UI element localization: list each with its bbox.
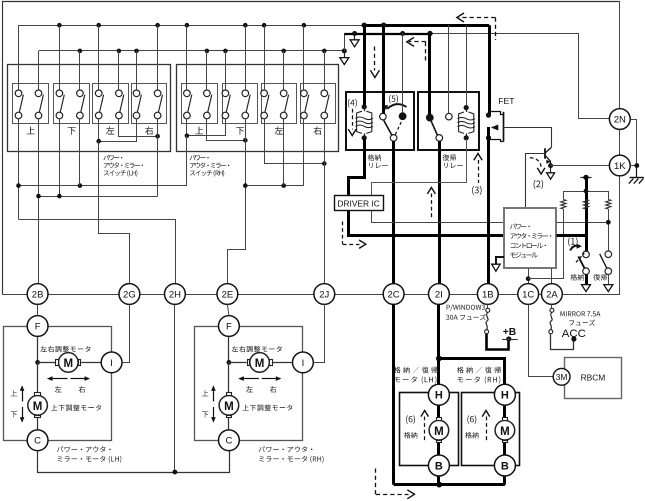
wire thick branch to RH H — [439, 359, 505, 385]
svg-text:1B: 1B — [482, 289, 494, 300]
svg-text:DRIVER IC: DRIVER IC — [337, 198, 379, 208]
connector 2H — [165, 284, 186, 305]
dashed arrow (4) down — [352, 109, 354, 130]
svg-text:I: I — [302, 358, 305, 369]
wire RH left-sw1 jog to right-sw2 column — [265, 119, 325, 164]
wire UD motor to C LH — [37, 418, 39, 430]
wire H3 to connector 2H — [19, 220, 176, 284]
+B terminal — [506, 336, 511, 341]
wire bus2 horizontal — [39, 50, 344, 52]
wire 2A to fuse — [551, 304, 553, 308]
label (4) — [348, 99, 357, 108]
junction dot RH down-sw2 column — [243, 138, 248, 143]
junction dots H1 right — [243, 183, 248, 188]
wire thick return common to connector 2I — [438, 141, 441, 283]
wire thick bus2b to return NC contact — [428, 34, 431, 115]
junction dot bus2b at storage relay NO contact — [400, 31, 405, 36]
wire 1C to 3M — [529, 304, 554, 376]
wire below return switch — [608, 275, 610, 285]
wire LH down-sw2 bottom to H1 — [79, 119, 81, 186]
connector 1B — [477, 284, 498, 305]
wire RH right-sw2 bottom to connector 2J — [324, 119, 326, 284]
wire thin bus1 to return NO contact — [448, 25, 450, 113]
dashed arrow up to return relay — [427, 188, 435, 194]
label storage/return motor RH — [457, 367, 501, 374]
mirror motor box RH — [195, 327, 303, 441]
label UD adjust motor RH — [243, 405, 293, 411]
return relay coil K2 — [464, 105, 469, 110]
wire RH up-sw2 jog to down-sw2 column — [207, 119, 246, 141]
wire thin bus1 to return coil — [466, 25, 468, 105]
ACC terminal — [571, 336, 576, 341]
dashed arrow above storage relay (signal to left) — [409, 41, 426, 43]
connector 1C — [518, 284, 539, 305]
svg-text:M: M — [255, 358, 265, 370]
label storage/return motor LH — [394, 367, 438, 374]
wire thick 2I down — [437, 304, 440, 384]
power outer mirror switch RH outer box — [177, 65, 339, 152]
wire 1B to fuse — [487, 304, 489, 308]
junction dots on bus1 thick — [362, 23, 367, 28]
connector C RH — [219, 430, 240, 451]
wire RH up-sw1 jog to down-sw1 — [186, 119, 188, 136]
terminal crossbar — [580, 177, 591, 179]
connector 2J — [314, 284, 335, 305]
storage relay box — [346, 92, 414, 150]
svg-text:1K: 1K — [614, 161, 626, 172]
FET source dot — [486, 135, 491, 140]
UD adjust motor M2 RH — [219, 396, 239, 416]
connector 2C — [383, 284, 404, 305]
wire H2 — [38, 196, 158, 198]
wire RH right-sw1 bottom to H1 right end — [303, 119, 305, 186]
wire thick B bus — [394, 483, 505, 486]
svg-text:F: F — [226, 321, 232, 332]
RH switch feed wires from buses — [186, 25, 188, 90]
svg-text:M: M — [500, 426, 510, 438]
connector 2I — [429, 284, 450, 305]
module right pin thick to storage switch net — [557, 234, 587, 237]
hollow arrow below emitter — [550, 168, 552, 173]
storage motor M LH — [429, 420, 449, 440]
wire thin DRIVER IC to module — [372, 211, 505, 223]
svg-text:2N: 2N — [614, 114, 626, 125]
connector H LH — [428, 384, 449, 405]
svg-text:I: I — [110, 358, 113, 369]
label P/WINDOW3 fuse — [447, 304, 485, 311]
wire 2E to F RH — [227, 304, 229, 315]
storage relay coil K1 — [362, 104, 367, 109]
transistor Q1 collector lead — [545, 148, 551, 153]
svg-text:H: H — [501, 390, 509, 402]
LH switch feed wires from buses — [18, 25, 20, 90]
label (2) — [534, 180, 544, 189]
LR direction arrows LH — [52, 378, 67, 380]
FET source lead — [489, 140, 503, 142]
mirror motor box LH — [4, 327, 112, 441]
label return relay — [443, 154, 457, 161]
return manual switch — [605, 251, 612, 258]
curved arrow (1) — [570, 246, 579, 251]
FET drain dot — [486, 113, 491, 118]
wire 2B to F LH — [37, 304, 39, 315]
hollow arrow below bus2 end — [344, 53, 346, 57]
wire thick below storage switch — [585, 275, 588, 285]
return relay common contact — [436, 135, 443, 142]
wire H1 left segment — [19, 185, 187, 187]
labels up down RH — [202, 390, 208, 396]
label storage RH — [465, 432, 478, 439]
junction dot bus2 right end — [322, 49, 327, 54]
wire return coil to DRIVER IC — [372, 139, 467, 196]
junction dot thick 2I branch — [436, 356, 442, 362]
wire connector row — [2, 294, 620, 296]
wire bus2 left drop to LH up-switch2 — [38, 51, 40, 90]
label power outer mirror motor LH — [57, 446, 111, 452]
transistor Q1 base lead to module — [526, 154, 545, 209]
connector I LH — [101, 352, 122, 373]
wire 2G to I LH — [122, 304, 130, 362]
dashed curved arrow (2) — [530, 158, 541, 170]
label LR adjust motor LH — [40, 346, 90, 352]
wire thick +B feed — [487, 334, 509, 350]
svg-text:B: B — [435, 460, 443, 472]
hollow arrow return — [604, 285, 613, 292]
LR adjust motor M1 LH — [59, 353, 79, 373]
wire thick H-M-B LH — [437, 405, 440, 417]
RBCM box — [565, 358, 622, 399]
wire H1 right segment — [245, 185, 304, 187]
label power outer mirror motor RH — [259, 446, 313, 452]
svg-text:C: C — [34, 436, 41, 447]
wire LH left-sw2 jog to right-sw2 column — [119, 119, 158, 137]
wire LH left-sw1 to connector 2G — [99, 141, 130, 283]
label (6) LH — [406, 415, 415, 424]
wire LH left-sw1 bottom jog to right-sw1 — [98, 119, 100, 142]
return relay blade solid — [431, 121, 437, 135]
storage relay blade solid — [384, 120, 392, 135]
connector 2A — [542, 284, 563, 305]
LH switch labels up/down/left/right — [27, 127, 35, 135]
wire LH right-sw2 bottom to H2 — [157, 119, 159, 196]
junction dot on right-sw2 column — [155, 134, 160, 139]
module left pin hollow arrow — [496, 257, 504, 264]
wire thick DRIVER IC to module — [349, 211, 505, 236]
DRIVER IC box — [335, 196, 384, 211]
label return switch — [593, 274, 607, 281]
label MIRROR fuse — [561, 311, 601, 316]
hollow arrow storage — [582, 285, 591, 292]
labels left right LH — [55, 386, 62, 392]
wire emitter to connector 1K — [551, 165, 610, 167]
label control module — [510, 224, 530, 230]
FET gate arrow — [491, 125, 499, 131]
wire 2N right to ground branch — [630, 120, 636, 166]
wire 2N drop — [619, 1, 621, 108]
wire junction to LR motor RH — [229, 362, 247, 364]
RH switch sub-boxes — [182, 84, 218, 124]
svg-text:ACC: ACC — [562, 328, 586, 340]
RH switch labels up/down/left/right — [195, 127, 203, 135]
svg-text:RBCM: RBCM — [581, 372, 606, 382]
junction dot bus2b stub — [352, 31, 357, 36]
wire LH down-sw1 bottom to H2 — [59, 119, 61, 196]
svg-text:2B: 2B — [32, 289, 44, 300]
module bottom pin to 2A — [551, 268, 553, 283]
labels left right RH — [246, 386, 253, 392]
UD direction arrows RH — [213, 391, 215, 402]
return relay contact NC filled — [426, 114, 434, 122]
transistor Q1 base bar — [544, 148, 546, 158]
storage relay actuation arc (5) — [387, 104, 406, 109]
dashed arrow DRIVER IC out — [342, 222, 344, 245]
junction dot LH — [35, 360, 40, 365]
power outer mirror control module box — [504, 208, 556, 268]
wire thin bus2b to storage NO contact — [402, 34, 404, 113]
wire thick 2C down to B bus — [392, 304, 395, 484]
connector F LH — [27, 316, 48, 337]
svg-text:1C: 1C — [522, 289, 534, 300]
junction dot above 1C — [526, 276, 531, 281]
wire thick H-M-B RH — [503, 405, 506, 417]
dashed arrow (6) up LH — [421, 411, 429, 417]
wire RH up-sw1 down to H1 corner — [186, 136, 188, 186]
FET channel bar — [503, 112, 505, 142]
wire 2J to I RH — [313, 304, 324, 362]
UD direction arrows LH — [22, 391, 24, 402]
storage relay common contact — [390, 135, 397, 142]
junction dot RH — [227, 360, 232, 365]
svg-text:B: B — [501, 460, 509, 472]
wire 1K to connector 2A — [562, 176, 619, 295]
resistor R2 — [608, 191, 610, 200]
ground junction dot — [634, 163, 639, 168]
ground symbol — [636, 166, 638, 178]
wire thick bus1 corner to FET drain — [488, 25, 491, 114]
svg-text:2C: 2C — [388, 289, 400, 300]
connector H RH — [494, 384, 515, 405]
wire thick storage common to connector 2C — [392, 141, 395, 283]
wire right resistor down to return switch — [608, 209, 610, 251]
resistor R3 on thick net — [583, 200, 588, 210]
wire junction to UD motor RH — [228, 362, 230, 393]
UD adjust motor M2 LH — [28, 396, 48, 416]
svg-text:M: M — [434, 426, 444, 438]
junction dots on bus1 — [57, 23, 62, 28]
resistor top rail — [563, 191, 608, 193]
dashed arrow bottom — [375, 469, 377, 495]
label (1) — [568, 237, 578, 246]
svg-text:2J: 2J — [319, 289, 329, 300]
storage relay blade dashed to NO — [395, 121, 402, 135]
label storage switch — [571, 274, 584, 281]
junction dots on bus2 — [78, 49, 83, 54]
junction dot right resistor net — [606, 220, 611, 225]
dashed arrow (6) up RH — [482, 411, 490, 417]
wire FET gate to transistor collector — [504, 128, 552, 148]
wire thick bus1 to storage NC contact — [382, 25, 385, 113]
storage motor M RH — [495, 420, 515, 440]
svg-text:M: M — [33, 401, 43, 413]
connector I RH — [293, 352, 314, 373]
wire RH down-sw2 bottom to 2E jog — [228, 119, 246, 284]
connector C LH — [27, 430, 48, 451]
wire junction to UD motor LH — [37, 362, 39, 393]
LR adjust motor M1 RH — [250, 353, 270, 373]
dashed arrow top (signal to left) — [459, 17, 495, 19]
FET drain lead — [489, 112, 503, 115]
wire bus2b thin continuation to 2N — [430, 34, 609, 119]
svg-text:2H: 2H — [169, 289, 181, 300]
label power outer mirror switch RH — [190, 155, 209, 161]
wire LH up-sw2 bottom to connector 2B — [38, 119, 40, 284]
wire LR motor to I RH — [273, 362, 293, 364]
wire big loop top — [3, 2, 620, 295]
transistor Q1 emitter lead with arrow — [545, 156, 550, 162]
wire common bus C motors — [38, 451, 230, 473]
wire 2N to 1K — [619, 129, 621, 155]
return relay box — [418, 92, 479, 150]
LR direction arrows RH — [244, 378, 259, 380]
return relay contact NO open circle — [446, 113, 453, 120]
wire thick bus1 to storage coil — [363, 25, 366, 105]
svg-text:FET: FET — [498, 96, 515, 106]
storage motor box RH — [462, 393, 520, 466]
dashed arrow down between relay feeds — [374, 47, 376, 71]
svg-text:+B: +B — [503, 327, 516, 338]
fuse MIRROR 7.5A — [550, 308, 554, 312]
wire LH up-sw1 bottom to H1 — [18, 119, 20, 220]
dashed arrow (3) up — [474, 154, 482, 161]
wire thick center net — [585, 177, 588, 251]
label (5) — [389, 95, 398, 104]
connector 2B — [27, 284, 48, 305]
power outer mirror switch LH outer box — [8, 65, 171, 152]
wire F to M junction RH — [228, 336, 230, 362]
LH switch contacts and blades — [15, 90, 22, 97]
junction dot RH right-sw2 column — [322, 161, 327, 166]
wire thick storage coil to DRIVER IC — [349, 139, 365, 196]
resistor R1 — [563, 191, 565, 200]
wire LR motor to I LH — [81, 362, 101, 364]
wire junction to LR motor LH — [38, 362, 56, 364]
module bottom pin to 1C — [528, 268, 530, 283]
svg-text:C: C — [225, 436, 232, 447]
fuse P/WINDOW3 30A — [486, 308, 490, 312]
junction dots H2 — [36, 194, 41, 199]
svg-text:2E: 2E — [222, 289, 234, 300]
label storage LH — [404, 432, 417, 439]
wire bus1 left drop to LH up-switch1 — [18, 25, 20, 90]
junction dot common bus — [173, 470, 178, 475]
storage manual switch — [583, 251, 590, 258]
junction dots H1 left — [16, 183, 21, 188]
junction dot bus2b at return relay NC contact — [427, 31, 432, 36]
connector 2G — [119, 284, 140, 305]
connector 2E — [217, 284, 238, 305]
wire RH left-sw2 bottom to H1 — [283, 119, 285, 186]
wire F to M junction LH — [37, 336, 39, 362]
junction dot LH left-sw1 — [96, 139, 101, 144]
module right pin thin to resistor net — [557, 222, 609, 224]
svg-text:2A: 2A — [546, 289, 558, 300]
connector 2N — [609, 109, 630, 130]
wire bus2b riser — [344, 34, 346, 51]
label LR adjust motor RH — [232, 346, 282, 352]
connector 3M — [553, 368, 570, 385]
svg-text:H: H — [435, 390, 443, 402]
svg-text:2G: 2G — [123, 289, 136, 300]
wire thick FET source to connector 1B — [487, 127, 490, 284]
svg-text:F: F — [35, 321, 41, 332]
wire bus2b horizontal (to storage/return relay contacts) — [344, 33, 430, 35]
label (6) RH — [467, 415, 476, 424]
connector B LH — [428, 455, 449, 476]
storage relay contact NC open circle — [380, 113, 387, 120]
label (3) — [472, 186, 482, 195]
junction dot RH up-sw1 — [185, 134, 190, 139]
label storage relay — [368, 154, 381, 161]
storage relay contact NO filled — [399, 112, 407, 120]
junction dot rail — [584, 189, 589, 194]
junction dot B bus — [436, 482, 442, 488]
connector 1K — [609, 155, 630, 176]
wire bus1 thick right part — [364, 24, 489, 27]
connector F RH — [219, 316, 240, 337]
emitter junction dot — [548, 163, 553, 168]
label power outer mirror switch LH — [103, 155, 122, 161]
label UD adjust motor LH — [51, 405, 101, 411]
labels up down LH — [11, 390, 17, 396]
wire UD motor to C RH — [228, 418, 230, 430]
connector B RH — [494, 455, 515, 476]
RH switch contacts and blades — [184, 90, 191, 97]
svg-text:M: M — [224, 401, 234, 413]
svg-text:2I: 2I — [435, 289, 443, 300]
wire 1K right to ground — [630, 165, 637, 167]
LH switch sub-boxes — [13, 84, 49, 124]
svg-text:M: M — [64, 358, 74, 370]
wire ACC feed — [551, 334, 574, 350]
svg-text:3M: 3M — [556, 372, 568, 382]
wire module/1C branch to resistor — [528, 209, 563, 279]
wire bus1 horizontal (switch feed, thin left part) — [18, 25, 364, 27]
storage motor box LH — [400, 393, 459, 466]
wire 2H down to common bus — [174, 304, 176, 472]
